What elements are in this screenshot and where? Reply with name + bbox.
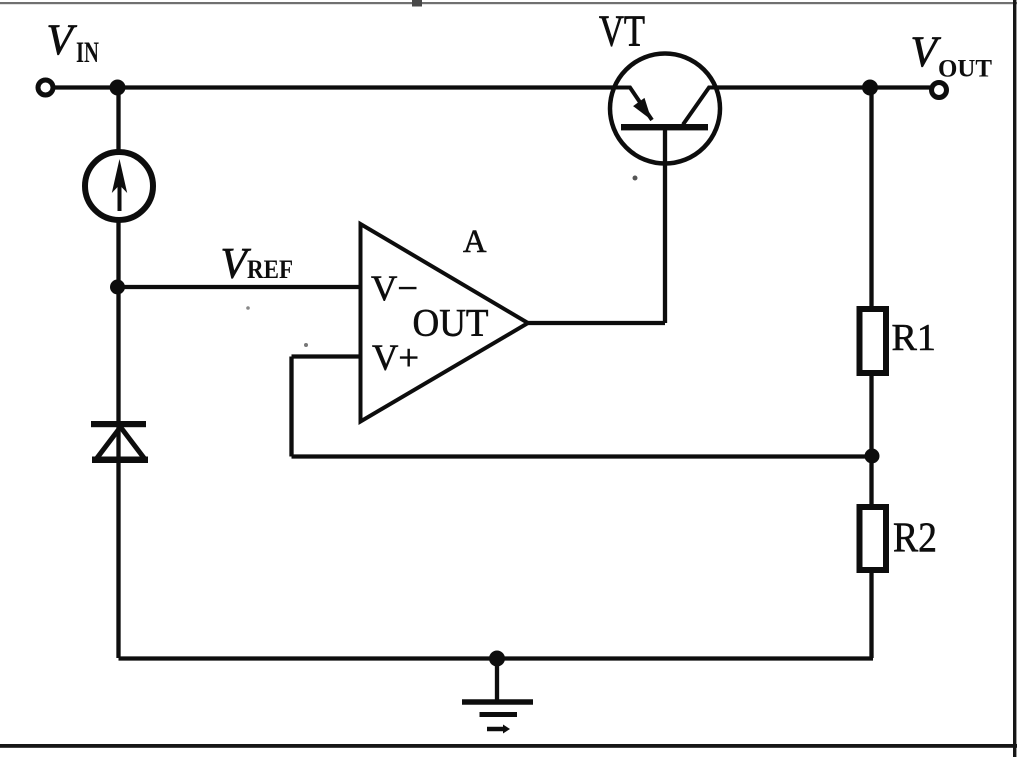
svg-text:V−: V−	[371, 268, 418, 308]
svg-text:IN: IN	[76, 36, 99, 69]
svg-text:A: A	[463, 224, 487, 260]
svg-text:V+: V+	[372, 338, 419, 379]
svg-text:R2: R2	[893, 516, 937, 562]
svg-text:REF: REF	[247, 255, 293, 284]
svg-text:R1: R1	[892, 317, 936, 359]
svg-text:OUT: OUT	[413, 302, 489, 345]
svg-text:VT: VT	[599, 7, 645, 56]
svg-text:OUT: OUT	[938, 56, 992, 83]
